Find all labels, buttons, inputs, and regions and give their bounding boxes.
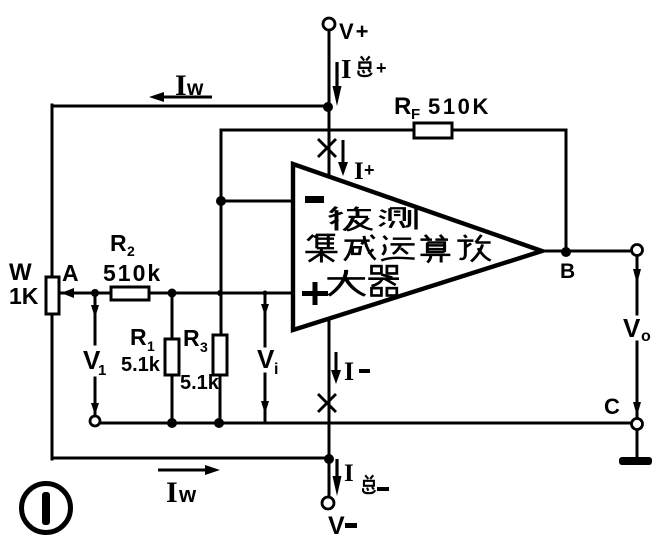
svg-text:I: I	[344, 460, 354, 487]
svg-text:2: 2	[127, 243, 135, 259]
junction R1 top	[168, 289, 177, 298]
svg-text:w: w	[186, 77, 204, 100]
label R3	[183, 325, 208, 355]
wire Vi measurement lower	[264, 374, 267, 423]
svg-text:510k: 510k	[103, 260, 162, 286]
wire bottom ground rail	[100, 422, 632, 425]
label V1	[83, 345, 106, 379]
junction feedback crossing small	[217, 290, 223, 296]
current arrow I-total-minus	[333, 459, 342, 496]
wire left vertical upper	[51, 105, 54, 278]
label W	[9, 259, 32, 286]
junction node A / V1 tap	[91, 289, 99, 297]
svg-text:C: C	[604, 394, 620, 419]
wire V1 measurement lower	[94, 378, 97, 415]
resistor R3 body	[213, 335, 227, 375]
svg-text:I: I	[175, 69, 187, 102]
op-amp text line1: char ce	[380, 207, 416, 230]
wire RF right vertical	[565, 130, 568, 252]
wire negative supply lower	[328, 318, 331, 498]
svg-text:W: W	[9, 259, 32, 286]
label R2	[110, 230, 135, 259]
terminal C	[632, 419, 643, 430]
svg-text:A: A	[62, 260, 79, 286]
label B	[560, 260, 575, 283]
svg-text:R: R	[394, 93, 411, 120]
label 510k value R2	[103, 260, 162, 286]
wire R1 bottom lead	[171, 375, 174, 423]
label 1K	[9, 283, 39, 309]
svg-text:V+: V+	[339, 19, 371, 44]
svg-text:o: o	[641, 328, 651, 345]
svg-text:1: 1	[98, 362, 106, 379]
svg-text:I: I	[344, 357, 354, 386]
current arrow I-	[331, 352, 341, 384]
resistor R1 body	[165, 339, 179, 375]
label 5.1k value R3	[180, 372, 220, 394]
wire feedback vertical to inverting node	[220, 130, 223, 335]
label I-total-plus	[341, 54, 387, 84]
terminal V-	[322, 497, 334, 509]
terminal V+	[323, 18, 335, 30]
junction inverting input node	[216, 196, 226, 206]
svg-text:+: +	[376, 58, 387, 78]
wire C to ground	[636, 429, 639, 457]
label A	[62, 260, 79, 286]
svg-text:I: I	[354, 158, 364, 185]
svg-text:R: R	[130, 324, 147, 350]
label Iw top	[175, 69, 204, 102]
op-amp U1 triangle	[293, 164, 542, 330]
wire output to terminal B	[542, 250, 631, 253]
label 5.1k value R1	[121, 354, 161, 376]
wire Vi measurement upper	[264, 293, 267, 346]
figure number circled 1	[22, 484, 71, 533]
wire left vertical lower	[51, 313, 54, 459]
svg-text:F: F	[411, 106, 420, 123]
wire R1 top lead	[171, 293, 174, 339]
wire Vo upper	[636, 256, 639, 314]
op-amp plus input sign	[302, 282, 328, 305]
wire RF feedback horizontal	[221, 129, 566, 132]
svg-text:5.1k: 5.1k	[121, 354, 161, 376]
wire bottom Iw return	[52, 457, 329, 460]
op-amp text line2: char yun	[381, 236, 414, 261]
ground symbol	[619, 457, 652, 465]
svg-text:R: R	[110, 230, 127, 256]
op-amp text line2: char suan	[420, 235, 450, 263]
wire Vo lower	[636, 342, 639, 418]
wire positive supply upper	[328, 30, 331, 176]
label Vo	[623, 313, 651, 345]
junction Iw return on supply	[324, 454, 334, 464]
svg-text:I: I	[166, 476, 178, 509]
op-amp text line1: char bei	[329, 207, 373, 231]
wire top Iw rail	[52, 105, 328, 108]
arrow Vo bottom	[633, 394, 641, 416]
current arrow I-total-plus	[333, 62, 342, 106]
svg-text:V: V	[328, 512, 345, 540]
wire R3 bottom lead	[219, 375, 222, 423]
arrow Iw bottom pointing right	[158, 465, 220, 475]
svg-text:510K: 510K	[428, 94, 491, 119]
break mark X on negative supply pin	[318, 394, 336, 412]
junction top supply node	[323, 102, 333, 112]
label I-	[344, 357, 370, 386]
op-amp text line3: char da	[327, 270, 365, 296]
op-amp text line2: char fang	[457, 235, 490, 262]
label RF 510K	[394, 93, 491, 123]
op-amp text line3: char qi	[368, 266, 399, 295]
svg-text:V: V	[623, 313, 641, 343]
svg-text:i: i	[274, 361, 278, 378]
op-amp text line2: char ji	[305, 234, 337, 263]
label V-	[328, 512, 357, 540]
resistor R2 body	[111, 287, 149, 300]
potentiometer wiper arrow at node A	[61, 288, 80, 298]
wire V1 measurement upper	[94, 293, 97, 344]
svg-text:B: B	[560, 260, 575, 283]
svg-text:3: 3	[200, 339, 208, 355]
svg-text:5.1k: 5.1k	[180, 372, 220, 394]
svg-text:1K: 1K	[9, 283, 39, 309]
terminal V1 probe	[90, 416, 100, 426]
break mark X on positive supply pin	[318, 139, 336, 157]
label Iw bottom	[166, 476, 197, 509]
arrow Vo top	[633, 258, 641, 284]
junction Vi tap small	[263, 291, 268, 296]
svg-text:w: w	[178, 482, 197, 507]
wire non-inverting input rail	[62, 292, 293, 295]
arrow Vi bottom	[261, 392, 269, 414]
label R1	[130, 324, 155, 354]
junction R3 bottom on rail	[214, 418, 224, 428]
arrow V1 top	[91, 297, 99, 318]
svg-text:I: I	[341, 54, 352, 84]
arrow Vi top	[261, 297, 269, 316]
svg-text:R: R	[183, 325, 200, 351]
arrow Iw top pointing left	[149, 92, 212, 102]
svg-text:1: 1	[147, 338, 155, 354]
wire inverting input	[221, 200, 293, 203]
junction R1 bottom on rail	[167, 418, 177, 428]
resistor RF body	[414, 123, 452, 138]
svg-text:+: +	[364, 160, 375, 180]
current arrow I+	[338, 140, 348, 176]
arrow V1 bottom	[91, 395, 99, 415]
potentiometer W 1k body	[46, 277, 59, 314]
label I-total-minus	[344, 460, 389, 493]
svg-text:V: V	[257, 344, 275, 374]
junction node B	[561, 247, 571, 257]
op-amp minus input sign	[305, 196, 324, 203]
op-amp text line2: char cheng	[344, 235, 375, 261]
terminal output B	[632, 245, 643, 256]
label I+	[354, 158, 375, 185]
label V+	[339, 19, 371, 44]
label C	[604, 394, 620, 419]
label Vi	[257, 344, 278, 378]
